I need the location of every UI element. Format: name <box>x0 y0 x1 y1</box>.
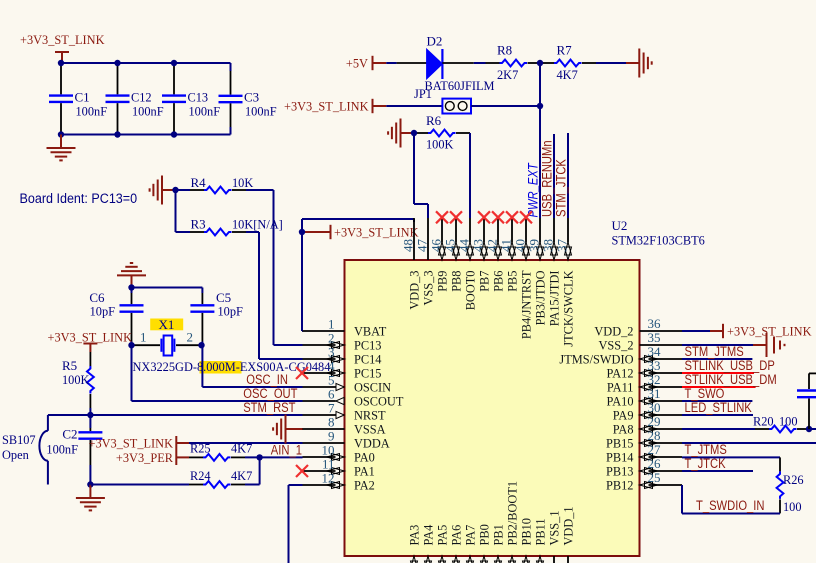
svg-text:44: 44 <box>457 239 472 253</box>
U2 pin 5 (OSCIN) <box>303 372 392 394</box>
svg-text:100K: 100K <box>62 372 90 387</box>
junction dots on cap rails <box>58 60 177 138</box>
svg-text:100: 100 <box>779 414 798 429</box>
svg-text:PA0: PA0 <box>354 450 375 465</box>
svg-text:X1: X1 <box>159 317 175 332</box>
svg-text:D2: D2 <box>427 34 443 49</box>
U2 pin 2 (PC13) <box>303 330 382 352</box>
capacitor C6 10pF <box>89 288 143 342</box>
power port +3V3_ST_LINK (top-left) <box>20 32 105 63</box>
U2 bottom pin (PA4) <box>421 524 436 563</box>
svg-text:+3V3_ST_LINK: +3V3_ST_LINK <box>20 32 105 47</box>
diode D2 BAT60JFILM <box>397 34 495 94</box>
net label T_SWO <box>685 386 725 401</box>
U2 bottom pin (PB2/BOOT1) <box>505 481 520 563</box>
wire PA8 to R20 <box>682 428 755 430</box>
svg-text:4K7: 4K7 <box>557 67 579 82</box>
svg-text:PC15: PC15 <box>354 366 382 381</box>
U2 bottom pin (PB11) <box>533 519 548 563</box>
svg-text:PB11: PB11 <box>533 519 548 546</box>
svg-text:PA7: PA7 <box>463 524 478 545</box>
svg-text:2: 2 <box>328 330 335 345</box>
svg-text:32: 32 <box>648 372 661 387</box>
wire R25 to PA0 (pin 10) <box>245 456 303 458</box>
svg-text:R25: R25 <box>190 441 211 456</box>
svg-text:+3V3_ST_LINK: +3V3_ST_LINK <box>284 99 369 114</box>
svg-text:36: 36 <box>648 316 662 331</box>
svg-text:PWR_EXT: PWR_EXT <box>526 162 541 218</box>
svg-text:VSSA: VSSA <box>354 422 386 437</box>
junction node JP1/PWR_EXT <box>537 103 543 109</box>
net label PWR_EXT <box>526 162 541 218</box>
wire crystal to OSCIN (pin 5) <box>202 345 302 387</box>
op-amp/IC U2 STM32F103CBT6 body <box>345 218 706 556</box>
net label OSC_OUT <box>243 386 297 401</box>
svg-text:10K: 10K <box>232 175 254 190</box>
net label T_JTCK <box>685 456 726 471</box>
wire VSS_2 to ground <box>682 344 753 346</box>
U2 pin 31 (PA10) <box>607 386 683 409</box>
svg-text:PA6: PA6 <box>449 524 464 545</box>
wire D2 to R8 <box>474 62 486 64</box>
power port +3V3_ST_LINK (R5) <box>48 330 133 353</box>
svg-text:PA10: PA10 <box>607 394 634 409</box>
wire STLINK_USB_DM <box>682 386 756 388</box>
svg-text:3: 3 <box>328 344 335 359</box>
wire R6 to BOOT0 (pin 44) <box>469 133 471 218</box>
U2 bottom pin (PB1) <box>491 524 506 563</box>
U2 pin 6 (OSCOUT) <box>303 386 404 408</box>
svg-text:JTCK/SWCLK: JTCK/SWCLK <box>561 270 576 347</box>
svg-text:28: 28 <box>648 428 661 443</box>
svg-text:30: 30 <box>648 400 661 415</box>
capacitor C3 100nF <box>219 71 277 127</box>
no-connect X marks (top pins) <box>436 211 532 223</box>
U2 pin 9 (VDDA) <box>303 428 391 450</box>
svg-text:PB12: PB12 <box>606 478 634 493</box>
svg-text:100nF: 100nF <box>245 104 277 119</box>
svg-text:PA15/JTDI: PA15/JTDI <box>547 271 562 327</box>
wire port to JP1 <box>386 105 442 107</box>
svg-text:+3V3_ST_LINK: +3V3_ST_LINK <box>727 324 812 339</box>
U2 pin 1 (VBAT) <box>303 316 387 338</box>
ground above crystal <box>117 263 146 288</box>
U2 pin 40 (PB4/JNTRST) <box>513 218 534 339</box>
svg-text:PB10: PB10 <box>519 518 534 546</box>
svg-text:VDD_2: VDD_2 <box>594 324 633 339</box>
wire T_JTCK (pin 26) <box>682 470 753 472</box>
wire R3 to PC14 (pin 3) <box>246 232 303 359</box>
svg-text:R24: R24 <box>190 468 211 483</box>
resistor R25 4K7 <box>189 441 253 461</box>
wire ground to VSS_3 (pin 47) <box>414 133 428 218</box>
svg-text:BAT60JFILM: BAT60JFILM <box>425 78 495 93</box>
svg-text:6: 6 <box>328 386 335 401</box>
resistor R3 10K[N/A] <box>190 217 283 236</box>
svg-text:47: 47 <box>415 239 430 253</box>
svg-text:PA8: PA8 <box>613 422 634 437</box>
svg-text:VBAT: VBAT <box>354 324 386 339</box>
U2 pin 8 (VSSA) <box>303 414 387 436</box>
svg-text:OSC_OUT: OSC_OUT <box>243 386 297 401</box>
wire +5V to D2 <box>386 62 396 64</box>
svg-text:R4: R4 <box>191 175 207 190</box>
wire PWR_EXT vertical (pin 39 net) <box>539 63 541 218</box>
svg-text:VSS_1: VSS_1 <box>547 511 562 546</box>
junction node R20/C <box>806 426 812 432</box>
svg-text:2K7: 2K7 <box>497 67 519 82</box>
svg-text:100nF: 100nF <box>132 104 164 119</box>
U2 pin 12 (PA2) <box>303 470 375 492</box>
capacitor C2 100nF <box>46 415 102 485</box>
svg-text:4K7: 4K7 <box>231 441 253 456</box>
wire T_SWO <box>682 400 752 402</box>
U2 pin 34 (JTMS/SWDIO) <box>559 344 682 367</box>
svg-text:AIN_1: AIN_1 <box>271 443 302 458</box>
net label STM_JTMS <box>685 344 744 359</box>
svg-text:C1: C1 <box>75 90 90 105</box>
capacitor C12 100nF <box>106 63 164 135</box>
U2 pin 35 (VSS_2) <box>599 330 683 353</box>
svg-text:LED_STLINK: LED_STLINK <box>685 400 752 415</box>
wire STM_JTCK (pin 37) <box>567 133 569 218</box>
junction nodes R5/C2 <box>87 412 93 488</box>
U2 pin 45 (PB8) <box>443 218 464 292</box>
svg-text:C2: C2 <box>62 427 77 442</box>
svg-text:PA2: PA2 <box>354 478 375 493</box>
svg-text:40: 40 <box>513 239 528 252</box>
junction node +3V3/VBAT <box>299 229 305 235</box>
svg-text:VSS_3: VSS_3 <box>421 271 436 306</box>
svg-text:T_SWO: T_SWO <box>685 386 725 401</box>
wire LED_STLINK <box>682 414 753 416</box>
svg-text:VDD_1: VDD_1 <box>561 506 576 545</box>
svg-text:R6: R6 <box>426 113 442 128</box>
svg-text:25: 25 <box>648 470 661 485</box>
wire T_SWDIO_IN (pin 25) <box>682 485 780 514</box>
U2 pin 44 (BOOT0) <box>457 218 478 310</box>
svg-text:+3V3_ST_LINK: +3V3_ST_LINK <box>48 330 133 345</box>
U2 pin 25 (PB12) <box>606 470 682 493</box>
svg-text:10pF: 10pF <box>218 304 243 319</box>
svg-text:PB8: PB8 <box>449 271 464 292</box>
wire VDD_2 to +3V3 <box>682 330 710 332</box>
U2 pin 48 (VDD_3) <box>401 218 422 310</box>
junction nodes crystal <box>128 284 204 348</box>
svg-text:PB2/BOOT1: PB2/BOOT1 <box>505 481 520 546</box>
resistor R24 4K7 <box>189 468 253 488</box>
wire R4 to PC13 (pin 2) <box>246 190 303 345</box>
svg-text:R7: R7 <box>557 43 573 58</box>
svg-text:27: 27 <box>648 442 662 457</box>
wire STLINK_USB_DP <box>682 372 754 374</box>
U2 pin 10 (PA0) <box>303 442 375 464</box>
svg-text:PA5: PA5 <box>435 525 450 546</box>
U2 pin 32 (PA11) <box>607 372 682 395</box>
wire bottom rail of C1..C3 <box>61 127 231 135</box>
svg-text:2: 2 <box>187 330 194 345</box>
ground right of R7 <box>626 49 652 78</box>
wire R5 to NRST row <box>89 408 91 415</box>
svg-text:4: 4 <box>328 358 335 373</box>
svg-text:STM32F103CBT6: STM32F103CBT6 <box>612 233 706 248</box>
svg-text:R8: R8 <box>497 43 512 58</box>
svg-text:4K7: 4K7 <box>231 468 253 483</box>
U2 pin 7 (NRST) <box>303 400 386 422</box>
svg-text:T_SWDIO_IN: T_SWDIO_IN <box>696 498 765 513</box>
svg-text:PB5: PB5 <box>505 271 520 292</box>
junction node AIN_1 <box>256 454 262 460</box>
svg-text:OSCIN: OSCIN <box>354 380 392 395</box>
svg-text:PA12: PA12 <box>607 366 634 381</box>
junction node R4/R3 <box>172 187 178 193</box>
svg-text:JTMS/SWDIO: JTMS/SWDIO <box>559 352 633 367</box>
wire top rail of C1..C3 <box>61 63 231 71</box>
svg-text:PC13: PC13 <box>354 338 382 353</box>
svg-text:Board Ident: PC13=0: Board Ident: PC13=0 <box>20 191 138 206</box>
svg-text:STM_JTMS: STM_JTMS <box>685 344 744 359</box>
svg-text:42: 42 <box>485 239 500 252</box>
U2 pin 28 (PB15) <box>606 428 682 451</box>
svg-text:1: 1 <box>328 316 335 331</box>
wire PB15 to edge <box>682 442 816 444</box>
svg-text:46: 46 <box>429 239 444 253</box>
note Board Ident <box>20 191 138 206</box>
wire +3V3 down to VBAT (pin 1) <box>301 219 304 331</box>
resistor R8 2K7 <box>486 43 542 83</box>
capacitor C5 10pF <box>132 290 243 345</box>
U2 pin 37 (JTCK/SWCLK) <box>555 218 576 347</box>
power port +3V3_ST_LINK (JP1) <box>284 99 386 114</box>
U2 pin 27 (PB14) <box>606 442 682 465</box>
svg-text:PB6: PB6 <box>491 270 506 292</box>
jumper JP1 <box>414 86 471 114</box>
svg-text:STM_RST: STM_RST <box>243 400 295 415</box>
svg-text:+3V3_ST_LINK: +3V3_ST_LINK <box>334 225 419 240</box>
power port +3V3_ST_LINK (U2 left-top) <box>302 225 419 240</box>
svg-text:STLINK_USB_DP: STLINK_USB_DP <box>685 358 775 373</box>
svg-text:PB3/JTDO: PB3/JTDO <box>533 271 548 326</box>
net label STLINK_USB_DM <box>685 372 777 387</box>
U2 pin 41 (PB5) <box>499 218 520 292</box>
junction node R8/R7 <box>537 60 543 66</box>
wire STM_JTMS <box>682 358 752 360</box>
wire JP1 to PWR_EXT net <box>471 105 540 107</box>
svg-text:R26: R26 <box>783 472 804 487</box>
ground left of VSSA (pin 8) <box>273 415 303 444</box>
ground left of R4 <box>150 176 176 205</box>
power port +3V3_ST_LINK (VDD_2) <box>710 324 812 339</box>
no-connect X (pin 11 PA1) <box>296 465 308 477</box>
power ports +3V3_ST_LINK / +3V3_PER <box>89 436 190 466</box>
svg-text:12: 12 <box>322 470 335 485</box>
U2 pin 39 (PB3/JTDO) <box>527 218 548 325</box>
ground right of VSS_2 <box>753 333 785 357</box>
net label T_SWDIO_IN <box>696 498 765 513</box>
net label STM_RST <box>243 400 295 415</box>
resistor R4 10K <box>176 175 254 193</box>
wire T_JTMS (pin 27) to R26 <box>682 456 780 458</box>
svg-text:10: 10 <box>322 442 335 457</box>
wire +3V3 to VDD_3 (pin 48) <box>302 219 414 222</box>
svg-text:7: 7 <box>328 400 335 415</box>
svg-text:USB_RENUMn: USB_RENUMn <box>540 140 555 217</box>
U2 bottom pin (PA6) <box>449 524 464 563</box>
net label STM_JTCK <box>554 159 569 217</box>
U2 pin 36 (VDD_2) <box>594 316 682 339</box>
svg-text:NRST: NRST <box>354 408 386 423</box>
net label T_JTMS <box>685 442 727 457</box>
svg-text:PB0: PB0 <box>477 524 492 545</box>
svg-text:PB4/JNTRST: PB4/JNTRST <box>519 270 534 339</box>
svg-text:PB9: PB9 <box>435 271 450 292</box>
svg-text:11: 11 <box>322 456 335 471</box>
wire USB_RENUMn (pin 38) <box>553 134 555 218</box>
svg-text:C3: C3 <box>244 90 259 105</box>
U2 pin 47 (VSS_3) <box>415 218 436 306</box>
svg-text:PB1: PB1 <box>491 524 506 545</box>
ground below C2 <box>76 485 105 511</box>
svg-text:100K: 100K <box>426 137 454 152</box>
U2 bottom pin (PA5) <box>435 525 450 563</box>
U2 pin 4 (PC15) <box>303 358 382 380</box>
svg-text:PA11: PA11 <box>607 380 634 395</box>
svg-text:STLINK_USB_DM: STLINK_USB_DM <box>685 372 777 387</box>
U2 pin 29 (PA8) <box>613 414 682 437</box>
svg-text:PC14: PC14 <box>354 352 382 367</box>
svg-text:38: 38 <box>541 239 556 252</box>
svg-text:35: 35 <box>648 330 661 345</box>
U2 pin 46 (PB9) <box>429 218 450 292</box>
wire STM_RST (pin 7) <box>48 414 303 416</box>
svg-text:+3V3_PER: +3V3_PER <box>116 450 173 465</box>
resistor R5 100K <box>62 352 94 408</box>
svg-text:OSC_IN: OSC_IN <box>246 372 288 387</box>
wire bottom rail to R24 <box>90 484 189 486</box>
U2 bottom pin (VDD_1) <box>561 506 576 563</box>
svg-text:VSS_2: VSS_2 <box>599 338 634 353</box>
capacitor C1 100nF <box>49 63 107 135</box>
svg-text:9: 9 <box>328 428 335 443</box>
svg-text:100nF: 100nF <box>76 104 108 119</box>
U2 pin 43 (PB7) <box>471 218 492 292</box>
U2 pin 26 (PB13) <box>606 456 682 479</box>
svg-text:PB13: PB13 <box>606 464 634 479</box>
svg-text:+3V3_ST_LINK: +3V3_ST_LINK <box>89 436 174 451</box>
svg-text:37: 37 <box>555 239 570 253</box>
wire +3V3 to VDDA (pin 9) <box>189 442 303 444</box>
U2 pin 33 (PA12) <box>607 358 683 381</box>
svg-text:OSCOUT: OSCOUT <box>354 394 403 409</box>
net label OSC_IN <box>246 372 288 387</box>
wire R7 to ground <box>596 62 626 64</box>
svg-text:41: 41 <box>499 239 514 252</box>
svg-text:C13: C13 <box>188 90 209 105</box>
svg-text:T_JTCK: T_JTCK <box>685 456 726 471</box>
svg-text:31: 31 <box>648 386 661 401</box>
svg-text:SB107: SB107 <box>2 432 36 447</box>
net label AIN_1 <box>271 443 302 458</box>
svg-text:43: 43 <box>471 239 486 252</box>
svg-text:PA3: PA3 <box>407 525 422 546</box>
svg-text:26: 26 <box>648 456 662 471</box>
net label STLINK_USB_DP <box>685 358 775 373</box>
U2 bottom pin (PB0) <box>477 524 492 563</box>
svg-text:VDDA: VDDA <box>354 436 390 451</box>
wire crystal to OSCOUT (pin 6) <box>132 345 303 401</box>
svg-text:8: 8 <box>328 414 335 429</box>
U2 pin 30 (PA9) <box>613 400 682 423</box>
svg-text:PA4: PA4 <box>421 524 436 545</box>
svg-text:U2: U2 <box>612 218 628 233</box>
U2 bottom pin (VSS_1) <box>547 511 562 563</box>
svg-text:BOOT0: BOOT0 <box>463 271 478 311</box>
net label LED_STLINK <box>685 400 752 415</box>
ground below C1 <box>47 135 76 161</box>
svg-text:JP1: JP1 <box>414 86 432 101</box>
svg-text:R3: R3 <box>191 217 206 232</box>
wire R24 up to AIN_1 <box>245 457 260 484</box>
svg-text:PB7: PB7 <box>477 270 492 292</box>
svg-text:100: 100 <box>783 499 802 514</box>
svg-text:PA1: PA1 <box>354 464 375 479</box>
svg-text:33: 33 <box>648 358 661 373</box>
wire C6 top rail to C5 <box>132 288 203 294</box>
svg-text:+5V: +5V <box>346 56 369 71</box>
svg-text:39: 39 <box>527 239 542 252</box>
svg-text:STM_JTCK: STM_JTCK <box>554 159 569 217</box>
svg-text:C12: C12 <box>131 90 152 105</box>
svg-text:48: 48 <box>401 239 416 252</box>
solder bridge SB107 Open <box>2 415 48 485</box>
wire PA2 (pin 12) down <box>289 485 303 563</box>
svg-text:1: 1 <box>140 330 147 345</box>
U2 pin 3 (PC14) <box>303 344 382 366</box>
svg-text:45: 45 <box>443 239 458 252</box>
resistor R7 4K7 <box>540 43 596 83</box>
crystal X1 NX3225GD-8.000M-EXS00A-CG0484 <box>132 317 331 374</box>
svg-text:29: 29 <box>648 414 661 429</box>
U2 bottom pin (PB10) <box>519 518 534 563</box>
svg-text:10pF: 10pF <box>90 304 115 319</box>
ground left of R6 <box>388 119 414 148</box>
svg-text:Open: Open <box>2 447 29 462</box>
wire junction down to R3 <box>176 190 191 232</box>
U2 bottom pin (PA3) <box>407 525 422 563</box>
svg-text:100nF: 100nF <box>189 104 221 119</box>
capacitor C13 100nF <box>162 63 220 135</box>
resistor R6 100K <box>414 113 470 152</box>
svg-text:R5: R5 <box>62 358 77 373</box>
no-connect X (pin 4 PC15) <box>296 367 308 379</box>
power port +5V <box>346 56 386 71</box>
svg-text:T_JTMS: T_JTMS <box>685 442 727 457</box>
svg-text:5: 5 <box>328 372 335 387</box>
U2 pin 38 (PA15/JTDI) <box>541 218 562 326</box>
junction node at R6/ground <box>411 130 417 136</box>
wire R20 to edge <box>811 428 816 430</box>
svg-text:10K[N/A]: 10K[N/A] <box>232 217 283 232</box>
resistor R26 100 <box>777 457 804 514</box>
U2 pin 42 (PB6) <box>485 218 506 292</box>
svg-text:R20: R20 <box>753 414 774 429</box>
U2 pin 11 (PA1) <box>303 456 375 478</box>
svg-text:PB15: PB15 <box>606 436 634 451</box>
svg-text:PA9: PA9 <box>613 408 634 423</box>
capacitor right edge <box>797 373 816 429</box>
svg-text:VDD_3: VDD_3 <box>407 271 422 310</box>
svg-text:100nF: 100nF <box>46 442 78 457</box>
